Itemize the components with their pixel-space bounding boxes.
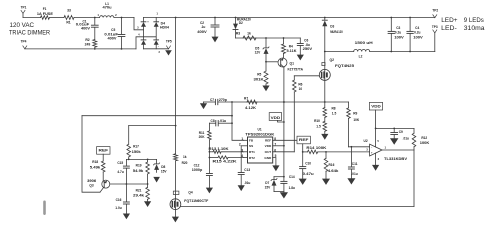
svg-text:470u: 470u [103, 6, 112, 10]
node VDD row at C9 [393, 127, 395, 129]
op-amp U2 TL331KDBV [364, 139, 409, 161]
node C11 tap [351, 146, 353, 148]
wire F1 to R1 [50, 17, 64, 19]
svg-text:MURA120: MURA120 [330, 30, 343, 34]
diode D2 MURA120 [233, 18, 251, 39]
svg-text:U1: U1 [258, 128, 262, 132]
svg-text:TP5: TP5 [166, 39, 172, 43]
svg-text:310ma: 310ma [464, 25, 485, 32]
svg-text:F1: F1 [43, 7, 47, 11]
svg-text:29.4k: 29.4k [133, 194, 144, 198]
wire Q2 drain [324, 52, 326, 70]
svg-text:FQT4N25: FQT4N25 [335, 64, 354, 68]
capacitor C13 .01u [238, 168, 250, 185]
svg-text:1k: 1k [247, 31, 251, 35]
svg-text:R10: R10 [314, 119, 320, 123]
node rail at D3 [324, 17, 326, 19]
wire FB vertical [232, 102, 244, 140]
resistor R16 4.64k [324, 152, 338, 179]
wire R17 top tap [129, 125, 176, 127]
svg-text:TRIAC DIMMER: TRIAC DIMMER [9, 30, 50, 37]
wire into Q3 [100, 188, 104, 193]
bridge D4 left leg upper diode [141, 18, 146, 40]
svg-text:C13: C13 [244, 168, 250, 172]
wire R1 to L1 [74, 17, 100, 19]
resistor R4 5.11K [282, 38, 298, 54]
svg-text:REF: REF [99, 149, 109, 153]
node LED- at C3 [390, 51, 392, 53]
capacitor C14 1.8u [281, 175, 295, 193]
svg-text:4: 4 [241, 154, 243, 158]
resistor R17 150k [127, 126, 141, 160]
wire VDD row to R12 [376, 127, 414, 129]
svg-text:R13 1.10K: R13 1.10K [209, 147, 230, 151]
svg-text:D8: D8 [161, 165, 165, 169]
svg-text:R14 100K: R14 100K [306, 146, 327, 150]
svg-text:Q2: Q2 [330, 58, 335, 62]
label 120 VAC TRIAC DIMMER [9, 22, 50, 36]
node top of C5 [121, 17, 123, 19]
node rail to D2 [235, 17, 237, 19]
svg-text:1.0u: 1.0u [115, 206, 121, 210]
U1 pin 3 RT1 [241, 148, 255, 154]
node R11 at RT2 row [209, 157, 211, 159]
resistor R11 20K [199, 123, 212, 173]
svg-text:301K: 301K [254, 78, 265, 82]
svg-text:0.47u: 0.47u [303, 172, 314, 176]
wire R20 to Q4 drain [175, 161, 177, 199]
capacitor C7 270p [210, 98, 227, 105]
svg-text:1.8u: 1.8u [289, 186, 295, 190]
wire LED- rail left of L2 [325, 51, 354, 53]
wire TP1 to F1 [23, 17, 41, 19]
transistor Q1 FZT757TA [278, 54, 304, 72]
wire Q1 collector down VDD line [283, 67, 285, 176]
capacitor C12 1000p [192, 164, 213, 188]
svg-text:.1u: .1u [201, 25, 206, 29]
svg-text:10K: 10K [353, 118, 360, 122]
resistor R9 10K [347, 102, 360, 147]
svg-text:R3: R3 [236, 31, 240, 35]
wire Q1 base row [266, 61, 278, 63]
ground below C2 [212, 37, 219, 43]
test point TP3 [432, 25, 438, 51]
svg-text:C14: C14 [289, 175, 295, 179]
ground at U1 pin 5 [272, 165, 279, 171]
svg-text:TP2: TP2 [432, 9, 438, 13]
ground below R21 [144, 201, 151, 207]
svg-text:100K: 100K [420, 141, 430, 145]
U1 pin 1 FB [241, 137, 253, 143]
svg-text:.01u: .01u [219, 119, 226, 123]
svg-text:R20: R20 [182, 161, 188, 165]
svg-text:+: + [147, 20, 149, 24]
test point TP1 [21, 5, 27, 17]
wire R6 to Q2 gate [294, 75, 319, 77]
svg-text:R21: R21 [136, 188, 142, 192]
svg-text:1k: 1k [183, 155, 187, 159]
svg-text:R17: R17 [133, 145, 139, 149]
svg-text:REF: REF [265, 139, 271, 143]
node row to R4 [283, 37, 285, 39]
node D5 to Q1 base [265, 61, 267, 63]
svg-text:33: 33 [67, 9, 71, 13]
svg-text:R9: R9 [353, 112, 357, 116]
node FB at divider wire [231, 115, 233, 117]
ground below D8 [153, 177, 160, 183]
svg-text:GND: GND [264, 156, 272, 160]
svg-text:-: - [371, 145, 372, 149]
U1 pin 5 GND [264, 154, 276, 165]
resistor R7 4.12K [244, 96, 257, 109]
svg-text:VDD: VDD [371, 105, 381, 109]
node R19 at mid row [147, 159, 149, 161]
svg-text:150k: 150k [132, 150, 141, 154]
resistor R14 100K [303, 146, 370, 154]
svg-text:R1: R1 [66, 21, 70, 25]
ground below C11 [347, 178, 355, 184]
svg-text:L2: L2 [359, 55, 363, 59]
capacitor C2 .1u 400V [197, 18, 219, 37]
svg-text:SS: SS [249, 144, 253, 148]
U1 pin 2 SS [239, 142, 253, 148]
wire D7 to C14 ground row [274, 191, 284, 193]
svg-text:LED+: LED+ [441, 17, 457, 24]
ground below C14 [280, 192, 288, 198]
diode D3 MURA120 [322, 18, 343, 52]
power flag VDD at U2 [369, 102, 382, 128]
svg-text:9 LEDs: 9 LEDs [464, 17, 485, 24]
svg-text:C12: C12 [194, 164, 200, 168]
inductor L2 1500 uH [354, 41, 374, 59]
svg-text:C15: C15 [117, 161, 123, 165]
capacitor C11 .01u [348, 147, 357, 178]
ground below R5 [262, 86, 269, 92]
svg-text:6: 6 [274, 148, 276, 152]
svg-text:270p: 270p [219, 98, 227, 102]
zener diode D7 15V [265, 177, 277, 192]
svg-text:R5: R5 [257, 73, 261, 77]
node VDD row at pin5 [375, 127, 377, 129]
svg-text:0.2u: 0.2u [414, 30, 420, 34]
svg-text:-: - [158, 44, 159, 48]
svg-text:C11: C11 [352, 162, 358, 166]
svg-text:250V: 250V [303, 47, 314, 51]
wire L1 to C5 [114, 17, 134, 19]
U1 pin 7 VDD [265, 142, 284, 148]
svg-text:1A FUSE: 1A FUSE [37, 12, 53, 16]
node CS row at Q2 source [324, 101, 326, 103]
wire left loop vertical [82, 116, 100, 193]
U1 pin 6 OUT [265, 148, 295, 154]
svg-text:15V: 15V [161, 169, 168, 173]
node bottom of R2 [94, 48, 96, 50]
capacitor C8 .01u [209, 119, 232, 126]
svg-text:12V: 12V [255, 50, 262, 54]
node VDD line at CS row [283, 101, 285, 103]
svg-text:TPS92001DGK: TPS92001DGK [245, 132, 275, 136]
wire divider from left loop [82, 115, 232, 117]
resistor R10 1.5 [314, 118, 327, 134]
svg-text:100V: 100V [413, 36, 424, 40]
svg-text:5.11K: 5.11K [287, 49, 298, 53]
node REF divider [302, 151, 304, 153]
svg-text:54.9k: 54.9k [133, 169, 144, 173]
node drain line R17 tap [175, 125, 177, 127]
ground below U2 [372, 165, 379, 171]
svg-text:15V: 15V [265, 186, 272, 190]
fuse F1 1A FUSE [37, 7, 53, 19]
node LED- rail at drain [324, 51, 326, 53]
capacitor C15 4.7u [117, 159, 129, 184]
svg-text:4.64k: 4.64k [328, 169, 339, 173]
svg-text:1500 uH: 1500 uH [355, 41, 374, 45]
wire U2 pin 2 to ground [376, 153, 380, 165]
test point TP5 [166, 39, 172, 49]
svg-text:8: 8 [274, 137, 276, 141]
svg-text:RT1: RT1 [249, 150, 255, 154]
svg-text:C7: C7 [210, 98, 214, 102]
op-amp IC U1 TPS92001DGK box [245, 128, 275, 163]
node emitter row C15 [126, 183, 128, 185]
svg-text:1000p: 1000p [192, 168, 203, 172]
svg-text:+: + [371, 150, 373, 154]
capacitor C9 .01u [391, 128, 409, 140]
svg-text:R18: R18 [92, 160, 98, 164]
wire LED- rail right of L2 [370, 51, 435, 53]
transistor Q4 FQT11N60CTF [170, 190, 208, 209]
wire SS jog to C13 [240, 146, 242, 172]
bridge D4 left leg lower diode [141, 40, 146, 49]
svg-text:C6: C6 [304, 39, 308, 43]
svg-text:R16: R16 [329, 163, 335, 167]
power flag VDD near U1 [269, 113, 284, 122]
svg-text:1.5: 1.5 [316, 125, 321, 129]
svg-text:FQT11N60CTF: FQT11N60CTF [184, 199, 208, 203]
svg-text:3: 3 [241, 148, 243, 152]
svg-text:100V: 100V [394, 36, 405, 40]
wire R9 to op-amp row [349, 146, 370, 148]
wire Q4 source to ground [174, 209, 176, 216]
resistor R20 1k [174, 154, 188, 165]
resistor R19 54.9k [133, 159, 150, 184]
node FB at C8 [231, 122, 233, 124]
wire Q3 emitter row [110, 183, 148, 185]
svg-text:D7: D7 [265, 181, 269, 185]
svg-text:Q3: Q3 [89, 183, 93, 187]
svg-text:D3: D3 [330, 25, 334, 29]
svg-text:TL331KDBV: TL331KDBV [384, 157, 408, 161]
ground below C9 [390, 138, 398, 145]
ground at TP5 [165, 50, 172, 55]
resistor R2 249 [85, 38, 97, 49]
capacitor C4 0.2u 100V [407, 18, 424, 52]
power flag REF at U1 pin 8 [297, 136, 310, 152]
svg-text:Q4: Q4 [188, 190, 192, 194]
ground below R16 [322, 179, 330, 185]
capacitor C5 0.01uF 400V [104, 18, 124, 49]
bridge D4 right leg upper diode [154, 18, 159, 40]
svg-text:400V: 400V [197, 30, 208, 34]
node CS row at FB chain [231, 101, 233, 103]
wire AC neutral jog to bridge pin 4 [136, 33, 156, 49]
svg-text:400V: 400V [108, 37, 118, 41]
svg-text:Q1: Q1 [290, 61, 295, 65]
wire row from D2 to C6 [236, 37, 301, 39]
ground below R10 [321, 134, 328, 140]
capacitor C16 1.0u [115, 184, 129, 214]
resistor R13 1.10K row [209, 147, 244, 153]
node R11 at RT1 row [209, 151, 211, 153]
wire U2 output [382, 149, 414, 151]
resistor R12 100K [412, 128, 430, 150]
capacitor C1 0.01uF 400V [76, 18, 98, 40]
test point TP4 [21, 39, 27, 49]
zener diode D8 15V [154, 159, 168, 173]
svg-text:.01u: .01u [403, 136, 409, 140]
svg-text:0.2u: 0.2u [395, 30, 401, 34]
node rail at C3 [390, 17, 392, 19]
svg-text:10: 10 [299, 87, 303, 91]
svg-text:400V: 400V [81, 26, 91, 30]
wire Q2 source [324, 80, 326, 102]
ground below C6 [297, 55, 304, 61]
svg-text:R7: R7 [244, 96, 248, 100]
node VDD line at pin7 [283, 145, 285, 147]
U1 pin 8 REF [265, 137, 297, 143]
resistor R15 4.22K row [209, 156, 243, 164]
transistor Q2 FQT4N25 [319, 58, 354, 81]
node LED- at C4 [409, 51, 411, 53]
resistor R21 29.4k [133, 184, 149, 201]
svg-text:7: 7 [274, 142, 276, 146]
U1 pin 4 RT2 [241, 154, 255, 160]
svg-text:U2: U2 [364, 139, 368, 143]
node R3 to D5 [265, 37, 267, 39]
svg-text:TP4: TP4 [21, 39, 27, 43]
svg-text:TP1: TP1 [21, 5, 27, 9]
wire bottom feedback rail [180, 206, 414, 208]
svg-text:2: 2 [239, 142, 241, 146]
svg-text:TP3: TP3 [432, 25, 438, 29]
wire AC live jog to bridge pin 3 [134, 18, 144, 30]
svg-text:RT2: RT2 [249, 156, 255, 160]
capacitor C3 0.2u 100V [388, 18, 405, 52]
svg-text:R19: R19 [136, 163, 142, 167]
svg-text:.01u: .01u [351, 172, 357, 176]
bridge D4 bottom wire [144, 48, 169, 50]
resistor R18 5.49k [90, 154, 105, 172]
svg-text:VDD: VDD [265, 144, 272, 148]
svg-text:249: 249 [85, 42, 91, 46]
node R16 tap [325, 151, 327, 153]
wire drain line down to R20 [175, 18, 177, 154]
svg-text:FZT757TA: FZT757TA [288, 68, 304, 72]
label LED+ 9 LEDs [441, 17, 484, 24]
capacitor C10 0.47u [300, 152, 314, 179]
resistor R6 10 [293, 76, 303, 152]
label LED- 310ma [441, 25, 485, 32]
bridge D4 right leg lower diode [154, 40, 159, 49]
transistor Q3 3906 [87, 172, 110, 188]
node top of C1 [94, 17, 96, 19]
svg-text:VDD: VDD [271, 116, 281, 120]
wire divider mid row [126, 158, 156, 160]
power flag REF at R18 [97, 147, 110, 155]
svg-text:C9: C9 [399, 130, 403, 134]
svg-text:REF: REF [299, 138, 309, 142]
wire top DC rail [144, 17, 435, 19]
resistor R1 33 [64, 9, 74, 25]
artifact gray bar [43, 201, 46, 216]
svg-text:LED-: LED- [441, 25, 457, 32]
svg-text:4.7u: 4.7u [117, 170, 123, 174]
svg-text:R8: R8 [331, 106, 335, 110]
svg-text:1: 1 [241, 137, 243, 141]
zener diode D5 12V [255, 38, 269, 62]
capacitor C6 .8u 250V [297, 38, 313, 55]
node VDD line at flag [283, 121, 285, 123]
resistor R3 1k [236, 31, 256, 40]
svg-text:.01u: .01u [244, 181, 250, 185]
svg-text:5.49k: 5.49k [90, 165, 101, 169]
svg-text:R4: R4 [289, 44, 293, 48]
svg-text:R12: R12 [421, 136, 427, 140]
svg-text:5: 5 [275, 154, 277, 158]
svg-text:C8: C8 [211, 119, 215, 123]
wire bottom AC rail [25, 48, 136, 50]
wire VDD to D7 C14 row [274, 176, 284, 178]
svg-text:C16: C16 [116, 198, 122, 202]
inductor L1 470u [97, 2, 117, 18]
svg-text:4.12K: 4.12K [245, 106, 257, 110]
node R17 at mid row [128, 159, 130, 161]
wire feedback down right side [413, 150, 415, 207]
svg-text:R15 4.22K: R15 4.22K [213, 160, 238, 164]
ground below C13 [238, 185, 245, 191]
svg-text:D2: D2 [239, 21, 243, 25]
ground below C16 [123, 214, 130, 220]
svg-text:C10: C10 [305, 162, 311, 166]
wire CS row [204, 101, 349, 103]
ground below C10 [299, 179, 307, 185]
resistor R5 301K [254, 62, 269, 86]
svg-text:HD04: HD04 [160, 25, 169, 29]
ground left of C7 [200, 102, 207, 109]
test point TP2 [432, 9, 438, 18]
ground below C12 [206, 188, 213, 194]
node CS row at VDD line [283, 101, 285, 103]
node emitter row R21 [147, 183, 149, 185]
svg-text:1.5: 1.5 [332, 111, 337, 115]
node rail at C4 [409, 17, 411, 19]
node rail to C2 [214, 17, 216, 19]
svg-text:20K: 20K [199, 135, 206, 139]
bridge D4 labels [147, 12, 169, 54]
resistor R8 1.5 [323, 102, 336, 118]
node C14 top [283, 176, 285, 178]
ground below Q4 [172, 217, 179, 223]
wire U2 pin 5 VDD [376, 128, 380, 147]
node rail to Q4 drain line [175, 17, 177, 19]
svg-text:120 VAC: 120 VAC [10, 22, 35, 29]
svg-text:R2: R2 [85, 38, 89, 42]
svg-text:OUT: OUT [265, 150, 272, 154]
node bottom of C5 [121, 48, 123, 50]
